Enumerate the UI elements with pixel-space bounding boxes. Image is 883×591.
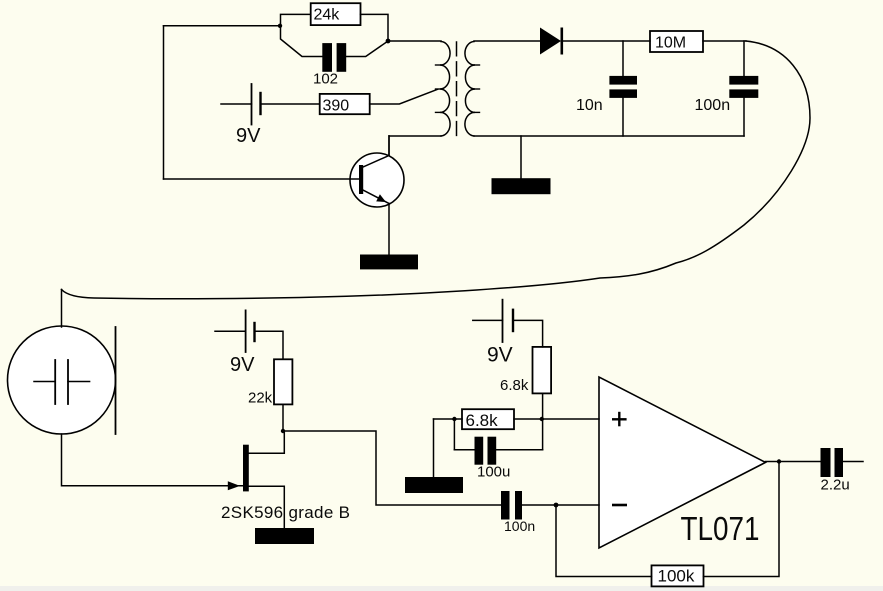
svg-text:10M: 10M (655, 34, 686, 51)
svg-text:24k: 24k (314, 7, 341, 24)
svg-text:22k: 22k (248, 390, 273, 407)
svg-text:100n: 100n (504, 518, 535, 534)
svg-text:100u: 100u (477, 463, 510, 480)
svg-text:2SK596 grade B: 2SK596 grade B (221, 503, 350, 522)
svg-text:9V: 9V (230, 354, 255, 376)
svg-text:9V: 9V (236, 125, 261, 147)
svg-text:6.8k: 6.8k (500, 377, 529, 394)
svg-text:102: 102 (313, 71, 338, 88)
svg-text:2.2u: 2.2u (821, 477, 850, 494)
svg-text:390: 390 (323, 97, 350, 114)
svg-text:100n: 100n (695, 97, 731, 114)
svg-text:TL071: TL071 (681, 511, 760, 548)
svg-text:9V: 9V (487, 344, 513, 367)
svg-text:10n: 10n (576, 97, 603, 114)
svg-text:6.8k: 6.8k (466, 411, 499, 430)
svg-text:100k: 100k (658, 567, 695, 586)
